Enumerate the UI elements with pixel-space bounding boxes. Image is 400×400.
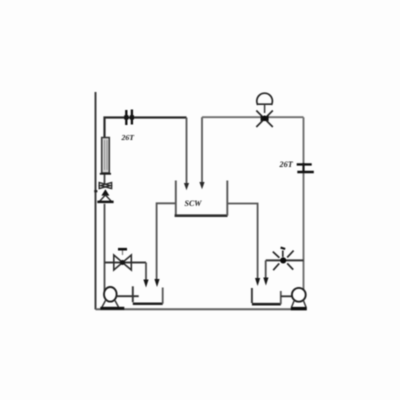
control valve CV1 (diaphragm actuator) — [257, 93, 273, 105]
pump P2 (right pump) — [292, 288, 306, 302]
arrowhead — [143, 280, 148, 288]
svg-text:SCW: SCW — [185, 199, 203, 208]
wire: feed arrow 1 into tank — [186, 118, 188, 185]
wire: feed arrow 2 into tank — [201, 117, 203, 183]
wire: bottom horizontal line — [96, 308, 307, 310]
valve SV1 (star/asterisk hand valve) — [282, 251, 284, 258]
wire: valve V1 down to pump branch — [104, 204, 106, 292]
orifice plate FE-1 (two vertical bars) — [126, 110, 132, 126]
valve V1 (valve under rotameter: bowtie, filled cone, seat) — [99, 183, 110, 189]
pump P1 (left pump) — [104, 287, 117, 302]
wire: left main vertical header — [95, 92, 97, 310]
wire: tank left outlet down-line — [157, 203, 176, 280]
valve V2 (gate valve with T-handle) — [114, 255, 132, 270]
wire: right main vertical line — [303, 117, 305, 289]
rotameter FI-1 — [102, 138, 110, 174]
arrowhead — [154, 279, 159, 287]
svg-text:26T: 26T — [121, 133, 136, 142]
wire: pump P2 suction from right sump — [281, 295, 294, 297]
wire: drain branch through gate valve — [105, 262, 147, 264]
node: junction blob at orifice — [124, 115, 128, 119]
sump T3 (right small open tank) — [251, 288, 253, 303]
arrowhead — [263, 278, 268, 286]
wire: top-right horizontal line — [202, 116, 304, 118]
wire: tank right outlet down-line — [227, 204, 257, 281]
wire: star valve branch — [266, 259, 304, 261]
sump T1 (left small open tank) — [132, 286, 134, 302]
tank T2 (center open tank SCW) — [175, 181, 177, 216]
wire: pump P1 suction from left sump — [116, 295, 139, 297]
control valve body (X) — [256, 111, 273, 128]
wire: down to left sump with arrow — [145, 263, 147, 282]
arrowhead — [255, 278, 260, 286]
wire: top-left horizontal line with riser corner — [105, 118, 187, 139]
wire: rotameter to valve — [104, 175, 106, 185]
orifice plate FE-2 (two horizontal bars) — [297, 164, 314, 172]
svg-text:26T: 26T — [279, 160, 294, 169]
wire: down to right sump — [265, 260, 267, 280]
